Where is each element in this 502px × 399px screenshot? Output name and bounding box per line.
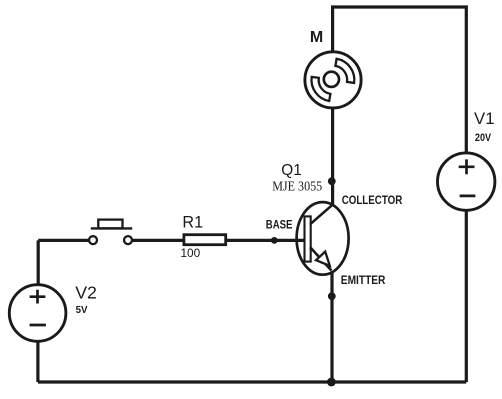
- svg-text:5V: 5V: [76, 305, 88, 316]
- svg-text:Q1: Q1: [281, 162, 302, 179]
- svg-text:20V: 20V: [475, 132, 492, 144]
- svg-text:BASE: BASE: [266, 219, 293, 232]
- svg-text:R1: R1: [182, 214, 203, 232]
- svg-text:MJE 3055: MJE 3055: [272, 179, 322, 194]
- svg-text:EMITTER: EMITTER: [341, 274, 386, 287]
- svg-text:V1: V1: [474, 109, 495, 128]
- svg-text:COLLECTOR: COLLECTOR: [342, 193, 403, 207]
- svg-text:100: 100: [181, 246, 201, 260]
- svg-text:M: M: [310, 29, 323, 46]
- svg-text:V2: V2: [75, 283, 97, 303]
